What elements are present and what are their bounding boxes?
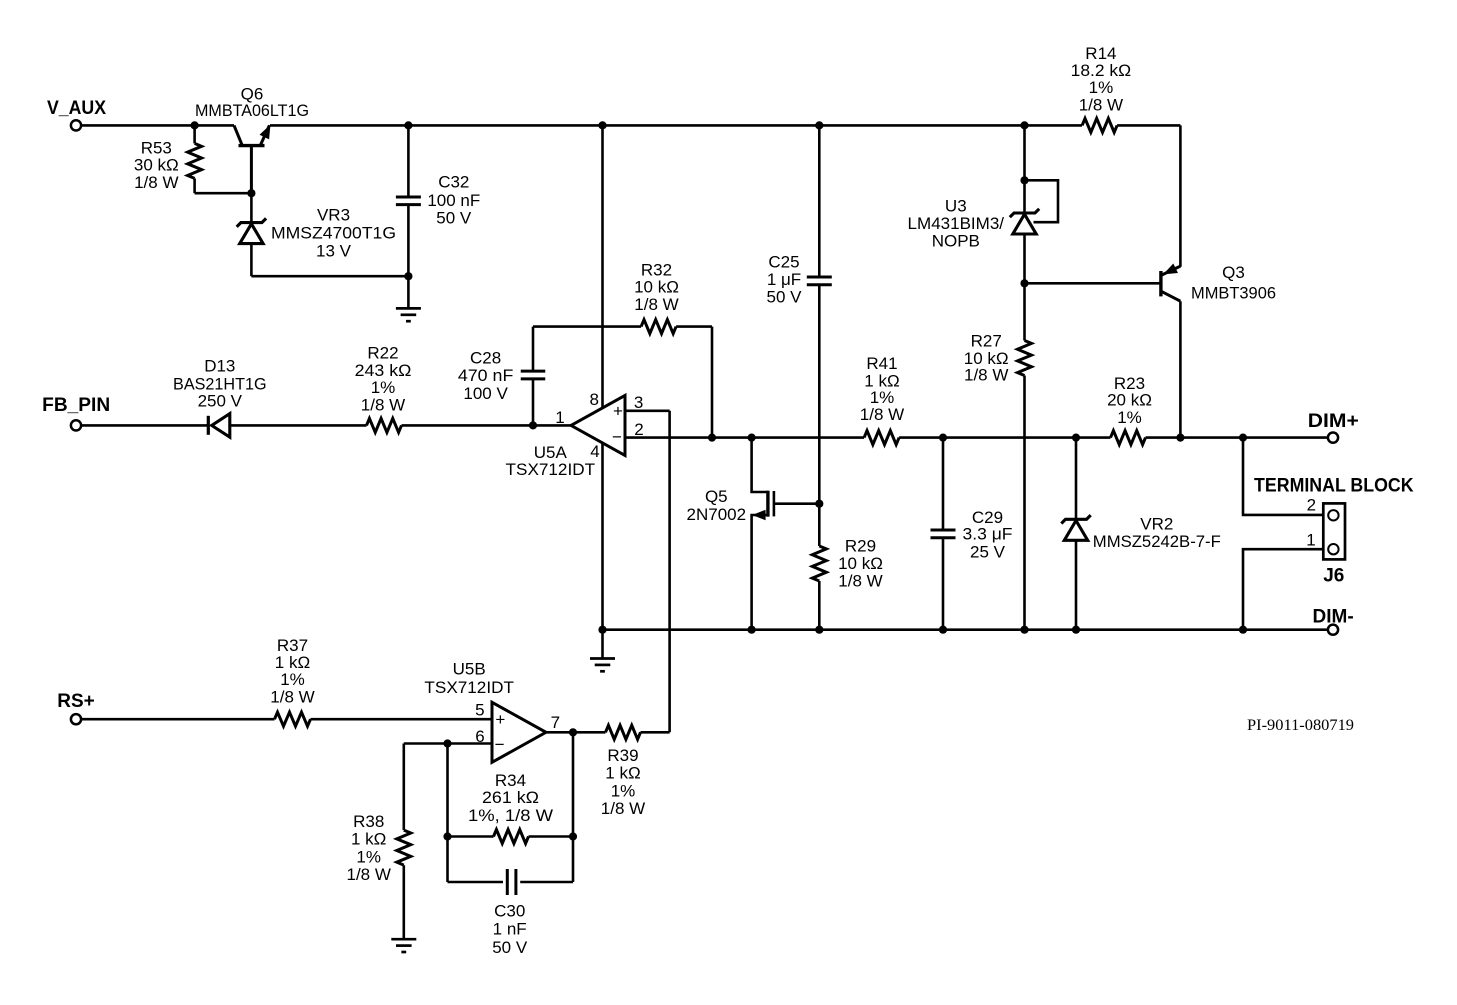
- svg-text:3: 3: [634, 393, 643, 412]
- svg-text:VR3: VR3: [317, 206, 350, 225]
- svg-text:J6: J6: [1323, 566, 1344, 587]
- svg-text:NOPB: NOPB: [932, 232, 980, 251]
- svg-text:U3: U3: [945, 197, 967, 216]
- svg-text:250 V: 250 V: [198, 392, 243, 411]
- svg-text:D13: D13: [204, 356, 235, 375]
- svg-text:1/8 W: 1/8 W: [134, 173, 178, 192]
- svg-text:R34: R34: [495, 771, 526, 790]
- svg-text:1/8 W: 1/8 W: [361, 396, 405, 415]
- svg-text:470 nF: 470 nF: [458, 366, 514, 385]
- svg-text:50 V: 50 V: [436, 208, 472, 227]
- svg-text:R27: R27: [971, 331, 1002, 350]
- svg-text:MMBT3906: MMBT3906: [1191, 284, 1276, 303]
- svg-text:1/8 W: 1/8 W: [964, 366, 1008, 385]
- svg-text:1/8 W: 1/8 W: [346, 865, 390, 884]
- svg-text:20 kΩ: 20 kΩ: [1107, 390, 1152, 409]
- svg-text:1%: 1%: [870, 388, 895, 407]
- svg-text:1%: 1%: [611, 782, 636, 801]
- svg-text:Q3: Q3: [1222, 263, 1245, 282]
- svg-text:100 nF: 100 nF: [427, 191, 480, 210]
- svg-text:TSX712IDT: TSX712IDT: [506, 460, 596, 479]
- svg-text:DIM-: DIM-: [1313, 607, 1354, 628]
- svg-text:18.2 kΩ: 18.2 kΩ: [1071, 61, 1132, 80]
- svg-text:100 V: 100 V: [463, 384, 508, 403]
- svg-text:1/8 W: 1/8 W: [838, 572, 882, 591]
- svg-text:4: 4: [590, 442, 599, 461]
- svg-text:1 kΩ: 1 kΩ: [605, 763, 640, 782]
- svg-text:8: 8: [589, 390, 598, 409]
- svg-text:2N7002: 2N7002: [687, 505, 747, 524]
- svg-text:R22: R22: [367, 343, 398, 362]
- svg-text:1/8 W: 1/8 W: [1079, 95, 1123, 114]
- svg-text:1 kΩ: 1 kΩ: [351, 830, 386, 849]
- svg-text:1: 1: [555, 408, 564, 427]
- svg-text:25 V: 25 V: [970, 542, 1006, 561]
- svg-text:MMSZ5242B-7-F: MMSZ5242B-7-F: [1093, 532, 1221, 551]
- svg-text:1: 1: [1306, 530, 1315, 549]
- svg-text:1 μF: 1 μF: [767, 270, 801, 289]
- svg-text:+: +: [613, 402, 623, 421]
- svg-text:DIM+: DIM+: [1308, 411, 1359, 432]
- svg-text:R29: R29: [845, 537, 876, 556]
- svg-text:RS+: RS+: [57, 691, 95, 712]
- svg-text:10 kΩ: 10 kΩ: [838, 554, 883, 573]
- svg-text:MMSZ4700T1G: MMSZ4700T1G: [271, 224, 396, 243]
- svg-text:2: 2: [1307, 495, 1316, 514]
- svg-text:5: 5: [475, 700, 484, 719]
- svg-text:BAS21HT1G: BAS21HT1G: [173, 374, 267, 393]
- svg-text:1%, 1/8 W: 1%, 1/8 W: [468, 806, 553, 825]
- svg-text:50 V: 50 V: [767, 288, 803, 307]
- svg-text:C25: C25: [768, 253, 799, 272]
- svg-text:261 kΩ: 261 kΩ: [482, 788, 539, 807]
- svg-text:TSX712IDT: TSX712IDT: [424, 678, 514, 697]
- svg-text:LM431BIM3/: LM431BIM3/: [908, 214, 1005, 233]
- svg-text:MMBTA06LT1G: MMBTA06LT1G: [195, 101, 309, 120]
- svg-text:10 kΩ: 10 kΩ: [634, 278, 679, 297]
- svg-text:2: 2: [634, 420, 643, 439]
- svg-text:30 kΩ: 30 kΩ: [134, 156, 179, 175]
- svg-text:1/8 W: 1/8 W: [860, 405, 904, 424]
- svg-text:6: 6: [475, 727, 484, 746]
- svg-text:7: 7: [551, 713, 560, 732]
- svg-text:C28: C28: [470, 348, 501, 367]
- svg-text:1%: 1%: [1117, 408, 1142, 427]
- svg-text:−: −: [495, 735, 505, 754]
- svg-text:1/8 W: 1/8 W: [634, 295, 678, 314]
- svg-text:1%: 1%: [1089, 78, 1114, 97]
- svg-text:1/8 W: 1/8 W: [601, 799, 645, 818]
- svg-text:3.3 μF: 3.3 μF: [963, 525, 1013, 544]
- svg-text:1%: 1%: [280, 670, 305, 689]
- svg-text:1/8 W: 1/8 W: [270, 687, 314, 706]
- svg-text:R38: R38: [353, 812, 384, 831]
- svg-text:R14: R14: [1085, 44, 1116, 63]
- svg-text:1 kΩ: 1 kΩ: [275, 653, 310, 672]
- svg-text:1 nF: 1 nF: [493, 920, 527, 939]
- svg-text:VR2: VR2: [1140, 514, 1173, 533]
- svg-text:Q5: Q5: [705, 487, 728, 506]
- svg-text:C32: C32: [438, 172, 469, 191]
- svg-text:FB_PIN: FB_PIN: [42, 395, 110, 416]
- svg-text:13 V: 13 V: [316, 241, 352, 260]
- svg-text:C30: C30: [494, 902, 525, 921]
- svg-text:1%: 1%: [356, 847, 381, 866]
- svg-text:V_AUX: V_AUX: [47, 98, 106, 119]
- svg-text:R39: R39: [607, 746, 638, 765]
- svg-text:R41: R41: [866, 354, 897, 373]
- svg-text:+: +: [495, 710, 505, 729]
- svg-text:1%: 1%: [371, 378, 396, 397]
- svg-text:50 V: 50 V: [492, 938, 528, 957]
- svg-text:−: −: [612, 427, 622, 446]
- svg-text:TERMINAL BLOCK: TERMINAL BLOCK: [1254, 476, 1414, 497]
- svg-text:U5B: U5B: [453, 660, 486, 679]
- svg-text:PI-9011-080719: PI-9011-080719: [1247, 717, 1354, 734]
